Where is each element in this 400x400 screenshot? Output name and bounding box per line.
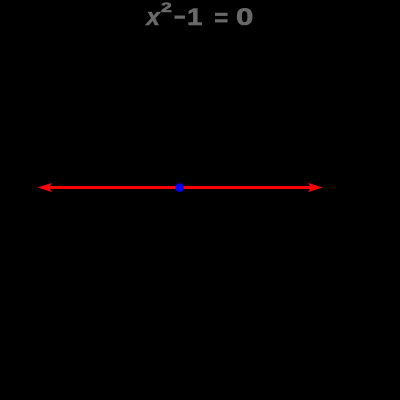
- title glyph equals sign: [214, 18, 228, 20]
- title glyph x (italic): [147, 17, 160, 19]
- title glyph 0: [236, 17, 253, 19]
- node: blue point at center of line: [175, 183, 184, 192]
- title glyph 1: [187, 17, 202, 19]
- title glyph superscript 2: [161, 7, 172, 9]
- wire: red number line: [46, 186, 314, 189]
- left arrowhead: [38, 183, 53, 192]
- title glyph minus sign: [174, 17, 185, 19]
- right arrowhead: [308, 183, 323, 192]
